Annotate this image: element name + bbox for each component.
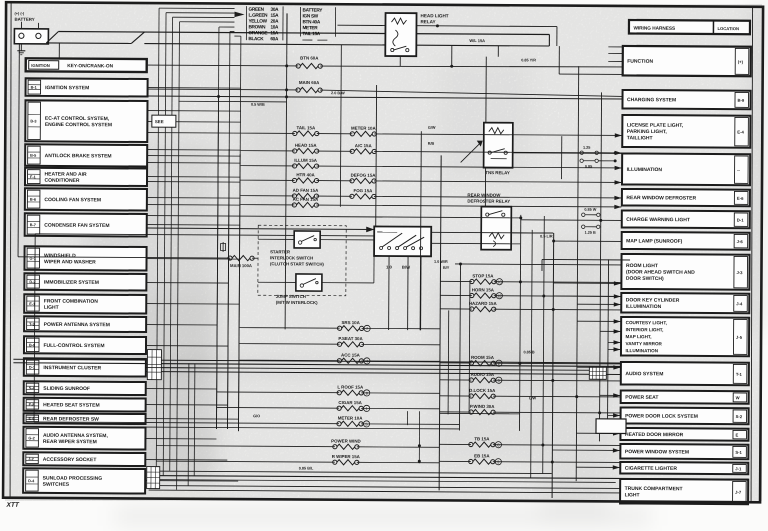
fuse row y=205.5: [240, 196, 621, 209]
inline connector pair (charge warning): [582, 213, 600, 229]
wire: band drop x450: [451, 45, 453, 66]
wire: vertical x189: [187, 363, 190, 485]
svg-text:COURTESY LIGHT,: COURTESY LIGHT,: [626, 320, 667, 325]
wire: battery bus lower edge: [46, 31, 549, 46]
svg-text:B/Y: B/Y: [443, 266, 450, 270]
svg-text:(DOOR AHEAD SWITCH AND: (DOOR AHEAD SWITCH AND: [626, 269, 695, 275]
svg-text:RELAY: RELAY: [420, 19, 435, 24]
wire: bus y97: [148, 96, 622, 99]
svg-text:AUDIO SYSTEM: AUDIO SYSTEM: [625, 371, 663, 377]
svg-text:0.85 B/L: 0.85 B/L: [299, 466, 314, 470]
svg-text:TAIL 15A: TAIL 15A: [297, 125, 316, 130]
left system box: REAR DEFROSTER SW: [24, 413, 146, 424]
svg-text:1.0 W/R: 1.0 W/R: [434, 260, 448, 264]
fuse MAIN 100A: [228, 255, 254, 260]
wire: vertical x340 col2 feed: [339, 45, 342, 207]
right system box: POWER SEAT: [621, 390, 749, 403]
left system box: IMMOBILIZER SYSTEM: [24, 273, 146, 290]
wire: vertical x440: [439, 155, 441, 490]
svg-text:D.LOCK 15A: D.LOCK 15A: [469, 388, 496, 393]
svg-text:IGNITION SYSTEM: IGNITION SYSTEM: [45, 85, 89, 91]
svg-text:BATTERY: BATTERY: [303, 7, 324, 12]
note box SEE: [152, 115, 176, 127]
svg-text:IGNITION: IGNITION: [31, 63, 50, 68]
relay: REAR WINDOW DEFROSTER RELAY: [467, 193, 511, 250]
left system box: SLIDING SUNROOF: [24, 381, 146, 395]
fuse row y=166.5: [241, 157, 622, 170]
svg-text:VANITY MIRROR: VANITY MIRROR: [626, 341, 663, 346]
wire: vertical x375: [375, 85, 378, 226]
svg-text:LIGHT: LIGHT: [44, 305, 59, 311]
fuse BTN 60A: [296, 63, 322, 68]
left system box: FRONT COMBINATION LIGHT: [24, 294, 146, 313]
svg-text:E-6: E-6: [737, 196, 744, 201]
relay: TNS RELAY: [484, 123, 513, 176]
component 8A: [221, 242, 226, 252]
wire: y477 long: [147, 476, 749, 480]
wire: vertical x420: [420, 131, 421, 330]
svg-text:POWER DOOR LOCK SYSTEM: POWER DOOR LOCK SYSTEM: [625, 413, 698, 419]
wire: fuse block bottom: [440, 412, 520, 414]
wires: stubs into FUNCTION box: [608, 47, 622, 62]
svg-text:BLACK: BLACK: [248, 36, 264, 41]
svg-text:E-1: E-1: [29, 302, 35, 306]
wire: top line from legend: [337, 25, 556, 26]
left system box: KEY-ON/CRANK-ON: [26, 58, 147, 72]
svg-text:INTERIOR LIGHT,: INTERIOR LIGHT,: [626, 327, 664, 332]
svg-text:B-9: B-9: [737, 98, 744, 103]
right system box: REAR WINDOW DEFROSTER: [622, 189, 750, 206]
svg-text:15A: 15A: [270, 30, 279, 35]
fuse STOP 15A: [440, 273, 621, 285]
svg-text:IGN SW: IGN SW: [303, 13, 319, 18]
wire: relay feeds: [485, 46, 622, 234]
dashed enclosure: [258, 225, 346, 296]
svg-text:INSTRUMENT CLUSTER: INSTRUMENT CLUSTER: [43, 365, 101, 371]
svg-text:METER: METER: [302, 25, 318, 30]
svg-text:LIGHT: LIGHT: [625, 492, 640, 498]
svg-text:1.25: 1.25: [583, 146, 590, 150]
svg-text:J-4: J-4: [736, 301, 743, 306]
fuse R WIPER 15A: [156, 453, 439, 466]
svg-text:(+) (-): (+) (-): [15, 12, 25, 16]
svg-text:ILLUM 15A: ILLUM 15A: [294, 158, 318, 163]
right system box: CHARGE WARNING LIGHT: [622, 210, 750, 228]
svg-text:L ROOF 15A: L ROOF 15A: [337, 385, 364, 390]
wire: ignition switch row lower: [35, 234, 374, 236]
wire: vertical x228: [227, 149, 229, 429]
svg-text:HAZARD 15A: HAZARD 15A: [469, 301, 498, 306]
svg-text:ILLUMINATION: ILLUMINATION: [627, 167, 663, 173]
svg-text:TRUNK COMPARTMENT: TRUNK COMPARTMENT: [625, 486, 683, 492]
svg-text:W: W: [736, 395, 740, 400]
wire: thick band y361: [13, 359, 620, 363]
svg-text:J-2: J-2: [28, 457, 34, 461]
svg-text:J-1: J-1: [735, 466, 742, 471]
svg-text:KEY-ON/CRANK-ON: KEY-ON/CRANK-ON: [67, 63, 113, 69]
connector grid at instrument cluster: [147, 350, 161, 380]
wire: vertical x520: [519, 215, 520, 431]
svg-text:LICENSE PLATE LIGHT,: LICENSE PLATE LIGHT,: [627, 122, 684, 128]
wire: ignition outputs down: [389, 256, 421, 330]
wire: y481: [147, 480, 616, 483]
svg-text:D-4: D-4: [28, 479, 35, 483]
fuse METER 10A: [34, 414, 459, 428]
junction dots on buses: [519, 280, 522, 283]
right system box: POWER WINDOW SYSTEM: [620, 444, 748, 459]
svg-text:E-6: E-6: [29, 417, 35, 421]
svg-text:B-3: B-3: [30, 119, 36, 123]
wire: vertical x577: [576, 66, 579, 481]
fuse row y=181: [240, 172, 621, 185]
ignition switch assembly: [374, 226, 431, 269]
inner border line right: [750, 7, 755, 502]
right system box: TRUNK COMPARTMENT LIGHT: [620, 479, 748, 504]
svg-text:LOCATION: LOCATION: [717, 26, 739, 31]
svg-text:ORANGE: ORANGE: [248, 30, 267, 35]
wires: stubs to right boxes: [552, 281, 621, 470]
junction box: [596, 419, 626, 434]
wire: vertical x408b: [407, 411, 409, 425]
svg-text:WIPER AND WASHER: WIPER AND WASHER: [44, 259, 96, 265]
wire: battery positive bus (top): [58, 32, 549, 35]
jump switch box: [296, 274, 322, 291]
wire: band y373: [146, 372, 620, 375]
wire: y214 cigarette feed: [147, 216, 521, 218]
svg-text:B-6: B-6: [30, 198, 36, 202]
wire: stub into FUNCTION box y73: [559, 73, 622, 75]
svg-text:ENGINE CONTROL SYSTEM: ENGINE CONTROL SYSTEM: [45, 122, 112, 128]
right system box: DOOR KEY CYLINDER ILLUMINATION: [621, 293, 749, 313]
right system box: MAP LAMP (SUNROOF): [622, 232, 750, 250]
wire: vertical x449: [447, 310, 450, 414]
svg-text:YELLOW: YELLOW: [248, 18, 267, 23]
wire: fuse block corner: [542, 258, 630, 261]
svg-text:S-1: S-1: [735, 450, 742, 455]
wire: vertical x561: [561, 136, 563, 179]
svg-text:MAIN 60A: MAIN 60A: [299, 80, 320, 85]
svg-text:0.85 Y/R: 0.85 Y/R: [521, 58, 536, 62]
svg-text:HEATED SEAT SYSTEM: HEATED SEAT SYSTEM: [43, 402, 100, 408]
right system box: ILLUMINATION: [622, 153, 750, 185]
svg-text:METER 10A: METER 10A: [351, 126, 377, 131]
svg-text:G-2: G-2: [28, 436, 34, 440]
right system box: AUDIO SYSTEM: [621, 362, 749, 385]
fuse row y=151.5: [241, 142, 622, 155]
svg-text:J-7: J-7: [735, 490, 742, 495]
label: jump switch: [276, 294, 318, 305]
wire: vertical x239: [238, 154, 240, 431]
svg-text:POWER SEAT: POWER SEAT: [625, 395, 658, 401]
svg-text:REAR WINDOW DEFROSTER: REAR WINDOW DEFROSTER: [626, 195, 696, 201]
arrow into TNS relay: [461, 141, 482, 162]
svg-text:B-7: B-7: [30, 223, 36, 227]
fuse P.WIND 30A: [440, 404, 621, 416]
fuse D.LOCK 15A: [440, 388, 621, 400]
wire: bus stub at x285: [286, 13, 288, 44]
legend: wire color code table (left block): [246, 6, 283, 41]
wire: y491: [149, 490, 620, 493]
svg-text:BATTERY: BATTERY: [14, 17, 34, 22]
svg-text:SRS 10A: SRS 10A: [341, 320, 360, 325]
svg-text:HEAD 15A: HEAD 15A: [295, 143, 318, 148]
wire bundle from legend to left buses: [156, 8, 241, 490]
wire: vertical x600: [599, 92, 601, 441]
svg-text:G/W: G/W: [428, 126, 436, 130]
svg-text:0.85: 0.85: [585, 165, 592, 169]
svg-text:TAIL 15A: TAIL 15A: [302, 31, 320, 36]
right system box: ROOM LIGHT (DOOR AHEAD SWITCH AND DOOR SWITCH): [621, 254, 749, 290]
wire: vertical x460: [459, 263, 460, 430]
wire to main fuse: [18, 44, 19, 257]
left system box: POWER ANTENNA SYSTEM: [24, 316, 146, 332]
wire: y102: [178, 100, 286, 103]
connector grid (audio amplifier): [589, 367, 606, 379]
svg-text:CHARGE WARNING LIGHT: CHARGE WARNING LIGHT: [626, 217, 690, 223]
wire: vertical x420b: [418, 411, 420, 463]
fuse row y=134: [241, 125, 622, 138]
wire: y428: [146, 427, 459, 429]
svg-text:DEFROSTER RELAY: DEFROSTER RELAY: [467, 199, 510, 204]
svg-text:METER 10A: METER 10A: [338, 416, 364, 421]
svg-text:DEFOG 15A: DEFOG 15A: [351, 173, 377, 178]
svg-text:ACCESSORY SOCKET: ACCESSORY SOCKET: [43, 457, 97, 463]
svg-text:COOLING FAN SYSTEM: COOLING FAN SYSTEM: [44, 197, 101, 203]
wire: ignition switch right outputs: [431, 232, 553, 244]
wire: thick band y365: [13, 363, 620, 367]
right system box: CHARGING SYSTEM: [622, 90, 750, 109]
wire: vertical x35: [34, 234, 35, 422]
svg-text:ACC 15A: ACC 15A: [341, 353, 361, 358]
left system box: AUDIO ANTENNA SYSTEM, REAR WIPER SYSTEM: [23, 427, 145, 450]
right system box: LICENSE PLATE LIGHT, PARKING LIGHT, TAILLIGHT: [622, 115, 750, 148]
svg-text:F-1: F-1: [30, 175, 36, 179]
svg-text:E-8: E-8: [29, 403, 35, 407]
svg-text:ANTILOCK BRAKE SYSTEM: ANTILOCK BRAKE SYSTEM: [45, 153, 112, 159]
fuse ACC 15A: [239, 352, 440, 365]
svg-text:D-1: D-1: [737, 218, 744, 223]
connector grid near sunload box: [147, 467, 160, 489]
left system box: INSTRUMENT CLUSTER: [24, 358, 146, 376]
left system box: IGNITION SYSTEM: [26, 78, 148, 96]
svg-text:2.0 B/W: 2.0 B/W: [331, 91, 345, 95]
fuse P.SEAT 30A: [240, 335, 441, 347]
wire MAIN row: [148, 88, 298, 91]
svg-text:L/W: L/W: [529, 396, 536, 400]
wire: y263 room light feed: [455, 264, 621, 265]
svg-text:DOOR SWITCH): DOOR SWITCH): [626, 276, 664, 282]
wire: vertical x544: [543, 216, 545, 473]
wire BTN row: [148, 64, 298, 67]
right system box: COURTESY LIGHT, INTERIOR LIGHT, MAP LIGHT, VANITY MIRROR ILLUMINATION: [621, 317, 749, 356]
svg-text:POWER WINDOW SYSTEM: POWER WINDOW SYSTEM: [625, 449, 689, 455]
svg-text:20A: 20A: [270, 19, 279, 24]
svg-text:10A: 10A: [270, 25, 279, 30]
svg-text:A/C 15A: A/C 15A: [355, 143, 373, 148]
svg-text:BTN 40A: BTN 40A: [302, 19, 320, 24]
svg-text:AUDIO 15A: AUDIO 15A: [471, 372, 495, 377]
svg-text:ROOM LIGHT: ROOM LIGHT: [626, 263, 658, 269]
svg-text:HEATED DOOR MIRROR: HEATED DOOR MIRROR: [625, 432, 684, 438]
svg-text:0.5 L/R: 0.5 L/R: [540, 234, 553, 238]
svg-text:POWER WIND: POWER WIND: [331, 438, 361, 443]
right system box: POWER DOOR LOCK SYSTEM: [621, 407, 749, 424]
fuse AUDIO 15A: [440, 372, 621, 384]
svg-text:T-3: T-3: [29, 322, 35, 326]
inner border line left: [8, 2, 13, 498]
svg-text:XTT: XTT: [6, 502, 20, 509]
svg-text:CHARGING SYSTEM: CHARGING SYSTEM: [627, 97, 676, 103]
left system box: ANTILOCK BRAKE SYSTEM: [25, 144, 147, 166]
left system box: HEATED SEAT SYSTEM: [24, 398, 146, 412]
svg-text:30A: 30A: [271, 7, 280, 12]
svg-text:SEE: SEE: [155, 119, 164, 124]
svg-text:AC FAN 15A: AC FAN 15A: [293, 197, 319, 202]
svg-text:CONDENSER FAN SYSTEM: CONDENSER FAN SYSTEM: [44, 223, 109, 229]
fuse MAIN 60A: [296, 87, 322, 92]
svg-text:FUNCTION: FUNCTION: [627, 59, 653, 65]
svg-text:CONDITIONER: CONDITIONER: [44, 178, 79, 184]
wire: head light relay drop: [399, 56, 401, 66]
svg-text:R/B: R/B: [428, 142, 435, 146]
wire: col3 left bus: [468, 282, 471, 412]
svg-text:J-5: J-5: [736, 335, 743, 340]
wire: stub into MAP LAMP: [554, 240, 621, 242]
svg-text:FULL-CONTROL SYSTEM: FULL-CONTROL SYSTEM: [43, 343, 104, 349]
wire: vertical x217: [216, 96, 218, 428]
svg-text:TNS RELAY: TNS RELAY: [485, 170, 510, 175]
svg-text:J-6: J-6: [737, 239, 744, 244]
svg-text:GREEN: GREEN: [249, 7, 265, 12]
fuse SRS 10A: [240, 319, 441, 332]
right column header: WIRING HARNESS / LOCATION: [629, 20, 750, 34]
svg-text:DOOR KEY CYLINDER: DOOR KEY CYLINDER: [626, 297, 680, 303]
svg-text:G/O: G/O: [253, 414, 260, 418]
svg-text:STOP 15A: STOP 15A: [472, 273, 494, 278]
svg-text:ILLUMINATION: ILLUMINATION: [625, 348, 658, 353]
left system box: COOLING FAN SYSTEM: [25, 188, 147, 210]
svg-text:W/L 15A: W/L 15A: [469, 38, 485, 43]
wire: band y369: [146, 368, 599, 371]
svg-text:SWITCHES: SWITCHES: [43, 482, 70, 488]
svg-text:TB 15A: TB 15A: [474, 436, 490, 441]
svg-text:ILLUMINATION: ILLUMINATION: [626, 304, 662, 310]
battery: [14, 17, 48, 44]
svg-text:E-4: E-4: [737, 130, 744, 135]
svg-text:BTN 60A: BTN 60A: [300, 55, 319, 60]
svg-text:ROOM 15A: ROOM 15A: [471, 355, 495, 360]
wire: vertical x553: [552, 233, 554, 498]
svg-text:T-1: T-1: [736, 372, 743, 377]
svg-text:0.5 W/B: 0.5 W/B: [251, 103, 265, 107]
svg-text:0.85 B: 0.85 B: [523, 350, 534, 354]
svg-text:POWER ANTENNA SYSTEM: POWER ANTENNA SYSTEM: [44, 322, 110, 328]
svg-text:P.SEAT 30A: P.SEAT 30A: [338, 336, 363, 341]
svg-text:P.WIND 30A: P.WIND 30A: [470, 404, 495, 409]
starter interlock switch box: [294, 231, 320, 248]
wire: y472: [147, 471, 552, 473]
wires: stubs from left boxes: [145, 88, 241, 482]
legend arrow: [235, 12, 245, 18]
svg-text:CIGARETTE LIGHTER: CIGARETTE LIGHTER: [625, 466, 678, 472]
fuse ROOM 15A: [440, 355, 621, 367]
left system box: SUNLOAD PROCESSING SWITCHES: [23, 468, 145, 493]
svg-text:SLIDING SUNROOF: SLIDING SUNROOF: [43, 386, 90, 392]
svg-text:B-5: B-5: [30, 154, 36, 158]
wire: y219 to charge warning light: [521, 219, 621, 222]
svg-text:IMMOBILIZER SYSTEM: IMMOBILIZER SYSTEM: [44, 280, 99, 286]
svg-text:R WIPER 15A: R WIPER 15A: [332, 454, 361, 459]
svg-text:EB 15A: EB 15A: [474, 453, 490, 458]
svg-text:(+): (+): [738, 59, 744, 64]
left system box: WINDSHIELD WIPER AND WASHER: [24, 246, 146, 270]
svg-text:60A: 60A: [270, 36, 279, 41]
fuse L ROOF 15A: [217, 384, 440, 397]
svg-text:1.25 B: 1.25 B: [585, 231, 596, 235]
wire: interlock connections: [258, 239, 374, 283]
wire: vertical x195: [193, 363, 196, 475]
svg-text:FOG 15A: FOG 15A: [354, 188, 374, 193]
fuse POWER WIND: [156, 437, 439, 450]
fuse CIGAR 15A: [217, 399, 440, 412]
left system box: FULL-CONTROL SYSTEM: [24, 336, 146, 354]
svg-text:BROWN: BROWN: [248, 24, 266, 29]
svg-text:B-1: B-1: [31, 86, 37, 90]
fuse HORN 15A: [440, 287, 621, 299]
svg-text:L.GREEN: L.GREEN: [249, 13, 269, 18]
svg-text:E: E: [735, 433, 738, 438]
svg-text:0.85 W: 0.85 W: [584, 208, 596, 212]
relay: HEAD LIGHT RELAY: [385, 13, 449, 56]
wire: y487 long: [149, 486, 620, 489]
wire: vertical x532: [531, 230, 533, 478]
wire: ignition switch feed left: [147, 228, 374, 229]
svg-text:REAR WIPER SYSTEM: REAR WIPER SYSTEM: [43, 439, 97, 445]
svg-text:WIRING HARNESS: WIRING HARNESS: [633, 26, 675, 31]
svg-text:MAP LAMP (SUNROOF): MAP LAMP (SUNROOF): [626, 238, 683, 244]
svg-text:(CLUTCH START SWITCH): (CLUTCH START SWITCH): [270, 261, 324, 266]
svg-text:STARTER: STARTER: [270, 249, 291, 254]
svg-text:MAIN 100A: MAIN 100A: [230, 263, 252, 268]
svg-text:(M/T W INTERLOCK): (M/T W INTERLOCK): [276, 300, 318, 305]
svg-text:INTERLOCK SWITCH: INTERLOCK SWITCH: [270, 255, 313, 260]
fuse TB 15A: [439, 436, 620, 448]
right system box: HEATED DOOR MIRROR: [620, 428, 748, 441]
svg-text:B/W: B/W: [402, 265, 410, 270]
svg-text:TAILLIGHT: TAILLIGHT: [627, 135, 653, 141]
right system box: FUNCTION: [623, 46, 751, 76]
svg-text:HTR 40A: HTR 40A: [296, 172, 315, 177]
fuse HAZARD 15A: [440, 301, 621, 313]
svg-text:MAP LIGHT,: MAP LIGHT,: [626, 334, 652, 339]
wire: header feed stub: [58, 43, 60, 58]
svg-text:15A: 15A: [271, 13, 280, 18]
svg-text:HEAD LIGHT: HEAD LIGHT: [421, 13, 449, 18]
svg-text:CIGAR 15A: CIGAR 15A: [338, 400, 362, 405]
left system box: CONDENSER FAN SYSTEM: [25, 213, 147, 236]
fuse row y=196.5: [240, 187, 621, 200]
wire: vertical x608: [607, 259, 610, 421]
label: starter interlock switch: [270, 249, 325, 266]
svg-text:PARKING LIGHT,: PARKING LIGHT,: [627, 129, 668, 135]
svg-text:S-2: S-2: [736, 414, 743, 419]
inline connector pair (illumination): [580, 151, 615, 163]
svg-text:JUMP SWITCH: JUMP SWITCH: [276, 294, 306, 299]
svg-text:AD FAN 15A: AD FAN 15A: [293, 188, 319, 193]
left system box: ACCESSORY SOCKET: [23, 452, 145, 466]
right system box: CIGARETTE LIGHTER: [620, 462, 748, 474]
fuse EB 15A: [439, 453, 620, 465]
